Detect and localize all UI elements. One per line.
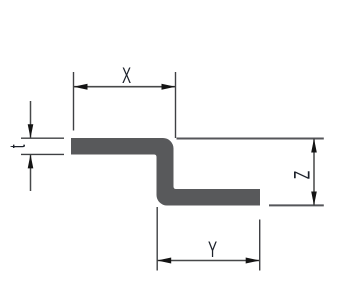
t dimension upper line <box>30 101 32 138</box>
svg-text:t: t <box>4 144 29 148</box>
X label <box>122 63 131 88</box>
t label (rotated) <box>4 144 29 148</box>
Y right arrowhead <box>246 258 260 264</box>
svg-text:Z: Z <box>289 171 314 179</box>
Z dimension bottom reference line <box>269 204 324 206</box>
t dimension bottom extension line <box>21 153 64 155</box>
Z dimension top reference line <box>177 138 324 140</box>
X right arrowhead <box>162 84 176 90</box>
svg-text:Y: Y <box>208 237 217 262</box>
Z dimension line <box>313 139 315 206</box>
t dimension lower line <box>30 155 32 192</box>
svg-text:X: X <box>122 63 131 88</box>
Y dimension right extension line <box>259 220 261 271</box>
t lower arrowhead (points up) <box>28 154 34 168</box>
Y left arrowhead <box>157 258 171 264</box>
Y dimension line <box>157 260 260 262</box>
X dimension line <box>74 86 176 88</box>
Z label (rotated) <box>289 171 314 179</box>
Z bottom arrowhead (points down) <box>311 192 317 206</box>
t dimension top extension line <box>21 137 64 139</box>
X dimension right extension line <box>175 72 177 138</box>
t upper arrowhead (points down) <box>28 124 34 138</box>
X left arrowhead <box>74 84 88 90</box>
Y label <box>208 237 217 262</box>
X dimension left extension line <box>73 72 75 131</box>
Y dimension left extension line <box>156 207 158 271</box>
Z top arrowhead (points up) <box>311 139 317 153</box>
Z-profile cross-section body <box>71 138 260 206</box>
